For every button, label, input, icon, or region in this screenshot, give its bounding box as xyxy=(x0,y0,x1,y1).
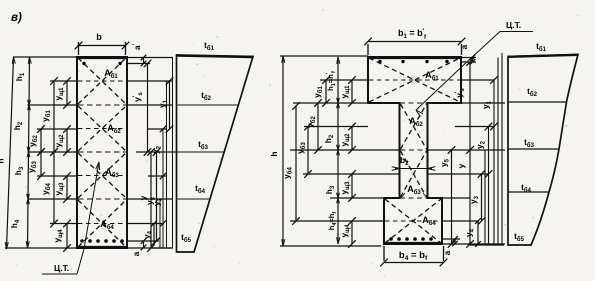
svg-text:у: у xyxy=(456,163,466,168)
long cluster line C xyxy=(172,58,174,249)
web junction dashed bottom xyxy=(400,197,427,199)
dimension y_u1 right xyxy=(351,80,353,103)
web junction dashed top xyxy=(400,102,427,104)
svg-text:в): в) xyxy=(11,12,22,24)
right top rebar dots xyxy=(378,60,381,63)
left zone A_b1 dashed X diagonals xyxy=(78,58,126,104)
dimension b4 line xyxy=(384,262,444,264)
left section rectangle outline xyxy=(77,57,127,248)
svg-text:у: у xyxy=(138,195,148,200)
left zone A_b3 dashed centre line xyxy=(78,175,126,177)
dimension h1-h4 line xyxy=(28,57,30,248)
left temp diagram outline xyxy=(177,55,254,252)
dimension b1 line xyxy=(368,41,462,43)
zone A_b2 dashed X xyxy=(401,104,427,149)
b2 arrow left xyxy=(392,167,400,171)
left-fig right extension row y=63.5 xyxy=(127,63,150,65)
left extension row y=176 xyxy=(37,175,77,177)
h-col mid arrows xyxy=(28,105,31,110)
left zone A_b1 dashed centre line xyxy=(78,80,126,82)
zone A_b4 dashed centre line xyxy=(385,220,441,222)
dimension y xyxy=(150,152,152,248)
dimension b extension right xyxy=(125,42,127,55)
right-fig left extension row y=126.5 xyxy=(304,126,368,128)
long cluster line B xyxy=(166,81,168,248)
right web zone boundary dashed xyxy=(401,149,427,151)
svg-text:b: b xyxy=(96,32,102,42)
y2y3 tick 223.5 xyxy=(160,220,166,226)
dimension y_b3 xyxy=(40,152,42,176)
right temp diagram thick top xyxy=(508,55,578,57)
dimension h right xyxy=(282,56,284,246)
A_b3 leader right leg xyxy=(423,193,427,198)
svg-text:a: a xyxy=(442,250,452,255)
left-fig right extension row y=176 xyxy=(148,175,166,177)
C.T. leader arrow right xyxy=(416,110,423,117)
right-fig right extension row y=62 xyxy=(461,61,476,63)
dimension y_b2 xyxy=(40,129,42,152)
left-fig right extension row y=152 xyxy=(136,151,178,153)
C.T. underline left xyxy=(42,273,77,275)
C.T. leader left xyxy=(77,162,99,274)
dimension a' (top cover) xyxy=(143,58,145,64)
left zone A_b4 dashed centre line xyxy=(78,223,126,225)
right-fig right extension row y=174 xyxy=(428,173,490,175)
left extension row y=199 xyxy=(28,198,78,200)
dimension y4 (left fig) xyxy=(153,224,155,244)
long right cluster line C xyxy=(501,53,503,245)
right-fig right extension row y=126.5 xyxy=(455,126,495,128)
h-col right mid arrows xyxy=(337,103,340,108)
h-col arrow top xyxy=(28,57,31,64)
right temp diagram outline xyxy=(508,55,578,246)
left top rebar dots xyxy=(82,62,85,65)
left-fig right extension row y=105 xyxy=(127,104,173,106)
C.T. leader right xyxy=(416,32,500,111)
dimension y1 line xyxy=(169,81,171,129)
dimension y_u3 right xyxy=(351,174,353,198)
dimension y3 right xyxy=(481,174,483,221)
left extension row y=57 xyxy=(13,56,77,58)
left zone A_b2 dashed X diagonals xyxy=(78,106,126,151)
dimension b4 ext left xyxy=(383,246,385,261)
dimension y_b4 right xyxy=(295,106,297,221)
cluster baseline xyxy=(150,247,173,249)
left temp division y=199 xyxy=(177,198,211,200)
left extension row y=81 xyxy=(50,80,77,82)
b2 arrow right xyxy=(428,167,436,171)
zone A_b1 dashed centre line xyxy=(369,79,460,81)
dimension b1 ext left xyxy=(367,44,369,55)
right-fig left extension row y=198 xyxy=(330,197,384,199)
right-fig left extension row y=56 xyxy=(280,55,368,57)
dimension b4 ext right xyxy=(443,246,445,261)
left zone A_b3 dashed X diagonals xyxy=(78,153,126,198)
svg-text:Ц.Т.: Ц.Т. xyxy=(54,263,69,273)
left extension row y=223.5 xyxy=(50,223,77,225)
zone A_b1 dashed X xyxy=(369,58,460,102)
dimension y4 right xyxy=(477,221,479,244)
long cluster line A xyxy=(159,199,161,248)
right-fig left extension row y=103 xyxy=(293,102,368,104)
right-fig right extension row y=244 xyxy=(442,243,505,245)
dimension y2/y3 line xyxy=(162,129,164,248)
right-fig left extension row y=174 xyxy=(303,173,400,175)
dimension a top right xyxy=(472,58,474,63)
right-fig right extension row y=103 xyxy=(461,102,505,104)
dimension y_b2 right xyxy=(317,103,319,150)
dimension y_b1 right xyxy=(325,80,327,103)
dimension y_u2 right xyxy=(351,127,353,151)
dimension b line xyxy=(79,45,126,47)
left-fig right extension row y=199 xyxy=(127,198,173,200)
right-fig right extension row y=239 xyxy=(442,238,460,240)
h-col right arrow top xyxy=(337,57,340,64)
h-col right arrow bottom xyxy=(337,237,340,244)
svg-text:a: a xyxy=(459,44,469,49)
right section thick top edge xyxy=(368,56,462,59)
left-fig right extension row y=223.5 xyxy=(127,223,164,225)
y2y3 tick 176 xyxy=(160,173,166,179)
right-fig left extension row y=246 xyxy=(280,245,381,247)
left section thick bottom edge xyxy=(77,246,128,249)
dimension y_u2 xyxy=(66,129,68,152)
right-fig left extension row y=80 xyxy=(320,79,368,81)
C.T. underline right xyxy=(500,31,533,33)
dimension a (bottom cover) xyxy=(143,241,145,248)
zone A_b3 dashed X xyxy=(401,151,427,197)
right-fig right extension row y=198 xyxy=(442,197,470,199)
right temp division 3 xyxy=(508,191,549,193)
h-col arrow bottom xyxy=(26,241,29,248)
left-fig right extension row y=129 xyxy=(148,128,166,130)
dimension y right xyxy=(469,150,471,244)
dimension b2 line xyxy=(395,168,432,170)
dimension y2 right xyxy=(488,127,490,246)
left zone boundary dashed line 3 xyxy=(78,151,126,153)
dimension y_u3 xyxy=(66,176,68,199)
svg-text:a: a xyxy=(131,251,141,256)
left-fig right extension row y=241 xyxy=(127,240,159,242)
dimension b1 ext right xyxy=(461,44,463,55)
left zone boundary dashed line 4 xyxy=(78,198,126,200)
right-fig right extension row y=57.5 xyxy=(461,57,476,59)
dimension y'_s right xyxy=(469,62,471,150)
long right cluster line A xyxy=(484,150,486,245)
dimension y_b4 xyxy=(53,152,55,224)
svg-text:h: h xyxy=(269,151,279,156)
A_b3 leader left leg xyxy=(401,193,405,198)
svg-text:Ц.Т.: Ц.Т. xyxy=(506,20,521,30)
right-fig left extension row y=150 xyxy=(290,149,400,151)
right bottom rebar dots xyxy=(389,237,393,241)
right-fig right extension row y=80 xyxy=(461,79,495,81)
dimension y_b1 xyxy=(53,81,55,152)
dimension y_u1 xyxy=(66,81,68,105)
left-fig right extension row y=248 xyxy=(127,247,172,249)
left temp division y=152 xyxy=(177,151,225,153)
dimension y1 right xyxy=(493,80,495,245)
left temp diagram thick top xyxy=(177,56,254,58)
left extension row y=105 xyxy=(28,104,78,106)
right temp division 2 xyxy=(508,148,559,150)
dimension y_s xyxy=(156,152,158,241)
dimension y_u4 right xyxy=(351,221,353,244)
left bottom rebar dots xyxy=(80,239,84,243)
left zone boundary dashed line 2 xyxy=(78,104,126,106)
right cluster baseline xyxy=(468,244,504,246)
right section thick bottom edge xyxy=(384,242,443,245)
right-fig right extension row y=150 xyxy=(428,149,506,151)
dimension a bottom right xyxy=(454,239,456,244)
zone A_b4 dashed X xyxy=(385,199,441,243)
dimension h1-h4 right line xyxy=(337,57,339,244)
dimension y_u4 xyxy=(66,224,68,249)
long right cluster line B xyxy=(497,58,499,246)
left temp division y=105 xyxy=(177,104,239,106)
svg-text:b4 = bf: b4 = bf xyxy=(399,250,428,262)
left-fig right extension row y=57.5 xyxy=(127,57,173,59)
left zone A_b4 dashed X diagonals xyxy=(78,200,126,247)
dimension y5 right xyxy=(451,150,453,244)
right-fig left extension row y=221 xyxy=(290,220,384,222)
svg-text:h: h xyxy=(0,158,6,163)
right I-section outline xyxy=(368,57,461,244)
dimension b extension left xyxy=(78,42,80,55)
left zone A_b2 dashed centre line xyxy=(78,128,126,130)
right temp division 1 xyxy=(508,101,567,103)
left-fig right extension row y=81 xyxy=(127,80,173,82)
dimension h xyxy=(7,57,14,249)
left extension row y=248 xyxy=(5,247,77,249)
scan speckle noise xyxy=(193,44,195,46)
dimension y'_s xyxy=(147,64,149,153)
y2y3 tick 129 xyxy=(160,126,166,132)
right-fig right extension row y=221 xyxy=(442,220,479,222)
left extension row y=129 xyxy=(37,128,77,130)
left section thick top edge xyxy=(77,56,128,59)
left extension row y=152 xyxy=(28,151,78,153)
dimension y_b3 right xyxy=(307,127,309,175)
C.T. leader arrow left xyxy=(96,162,100,170)
